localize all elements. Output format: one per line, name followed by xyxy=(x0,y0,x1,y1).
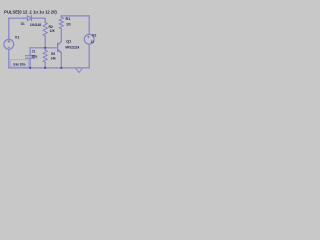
svg-text:.tran 20m: .tran 20m xyxy=(13,62,26,66)
svg-text:330u: 330u xyxy=(32,54,38,58)
svg-text:D1: D1 xyxy=(21,22,25,26)
wire bottom rail xyxy=(9,67,89,69)
V1 minus mark xyxy=(8,46,10,48)
wire V2 top lead xyxy=(88,16,90,34)
capacitor C1 xyxy=(29,48,31,56)
ground xyxy=(76,69,82,73)
resistor R2 xyxy=(43,23,47,37)
junction node: R3 bottom xyxy=(44,67,46,69)
svg-text:Q1: Q1 xyxy=(66,40,71,44)
svg-text:1N4148: 1N4148 xyxy=(30,23,41,27)
svg-text:12: 12 xyxy=(91,40,94,44)
voltage source V1 xyxy=(4,39,14,49)
svg-text:C1: C1 xyxy=(32,49,36,53)
junction node: emitter bottom xyxy=(60,67,62,69)
svg-text:MPS2222A: MPS2222A xyxy=(65,46,80,50)
resistor R3 xyxy=(44,48,46,50)
wire V1 bottom lead xyxy=(8,49,10,68)
wire V2 bottom lead xyxy=(88,44,90,68)
svg-text:R1: R1 xyxy=(66,17,71,21)
voltage source V2 xyxy=(84,34,94,44)
svg-text:14k: 14k xyxy=(51,56,56,60)
transistor Q1 xyxy=(57,43,59,51)
svg-text:22K: 22K xyxy=(50,29,55,33)
svg-text:PULSE(0 12 .1 1u 1u 12 20): PULSE(0 12 .1 1u 1u 12 20) xyxy=(4,10,57,15)
svg-text:V2: V2 xyxy=(92,33,97,37)
wire diode cathode to R2 top corner xyxy=(32,18,46,22)
junction node: C1 bottom xyxy=(29,67,31,69)
V1 plus mark xyxy=(8,36,90,48)
svg-text:V1: V1 xyxy=(15,35,20,39)
wire bridge R1 top to V2 xyxy=(61,15,89,17)
resistor R1 xyxy=(60,16,62,17)
wire top left to diode anode xyxy=(9,17,28,19)
background xyxy=(0,0,100,78)
wire V1 top lead xyxy=(8,18,10,39)
wire base node horizontal xyxy=(30,47,57,49)
svg-text:100: 100 xyxy=(66,23,70,27)
directive tran box xyxy=(10,60,28,67)
V2 plus mark xyxy=(87,36,89,38)
wire R2 bottom to base node xyxy=(44,36,46,48)
junction node: base node xyxy=(44,47,46,49)
diode D1 xyxy=(27,16,31,21)
transistor Q1 emitter arrow xyxy=(59,50,62,53)
